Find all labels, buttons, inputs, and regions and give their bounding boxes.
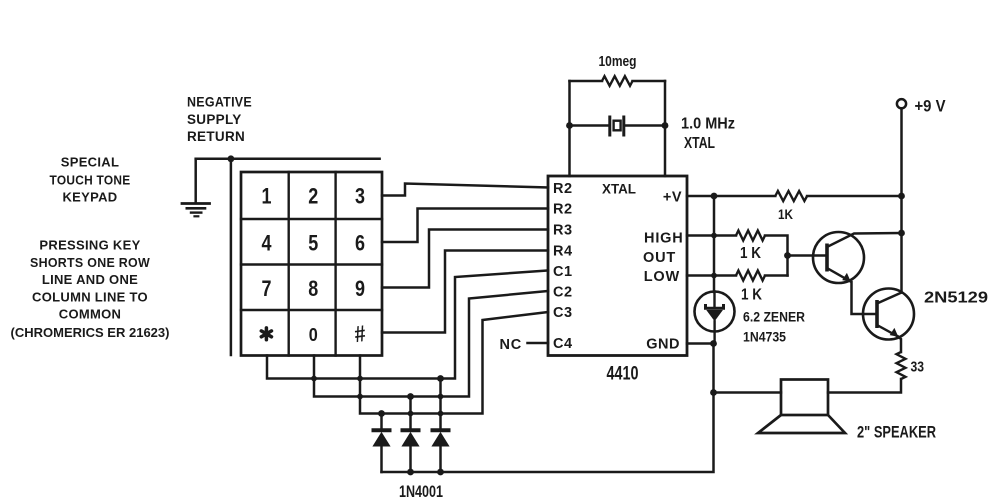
transistor Q2 base bar — [875, 300, 879, 328]
svg-text:7: 7 — [262, 276, 272, 301]
transistor Q1 circle — [813, 232, 864, 283]
wire negative supply vertical — [230, 159, 233, 355]
wire +V pin to rail — [687, 195, 714, 198]
wire rail +V to zener top — [713, 196, 716, 292]
svg-text:33: 33 — [911, 360, 925, 376]
svg-text:LINE AND ONE: LINE AND ONE — [42, 272, 138, 287]
svg-text:4410: 4410 — [607, 364, 639, 385]
svg-text:6.2 ZENER: 6.2 ZENER — [743, 310, 805, 325]
crossing blob D3 lead over H2 — [438, 394, 444, 400]
crossing blob col3 over H1 — [357, 376, 363, 382]
wire xtal top right — [633, 80, 666, 83]
crystal Y1 right plate — [622, 116, 625, 137]
svg-text:C2: C2 — [553, 285, 573, 301]
diode D1 cathode bar — [372, 428, 392, 432]
resistor R1 1K — [775, 191, 807, 201]
crossing blob LOW over rail — [711, 273, 717, 279]
wire diode D2 anode lead — [409, 397, 412, 431]
svg-text:NEGATIVE: NEGATIVE — [187, 95, 252, 110]
crossing blob HIGH over rail — [711, 233, 717, 239]
diode D2 cathode bar — [401, 428, 421, 432]
svg-text:OUT: OUT — [643, 250, 676, 266]
wire NC dash to pin C4 — [528, 342, 549, 345]
diode D3 triangle — [432, 433, 448, 446]
svg-text:1 K: 1 K — [740, 245, 762, 262]
svg-text:XTAL: XTAL — [602, 181, 636, 197]
svg-text:SUPPLY: SUPPLY — [187, 112, 242, 127]
diode D3 cathode bar — [431, 428, 451, 432]
svg-text:RETURN: RETURN — [187, 129, 245, 144]
svg-text:PRESSING KEY: PRESSING KEY — [39, 238, 140, 253]
keypad column divider 1 — [288, 172, 290, 356]
svg-text:(CHROMERICS ER 21623): (CHROMERICS ER 21623) — [11, 325, 170, 340]
svg-text:3: 3 — [355, 184, 365, 209]
zener CR4 triangle — [706, 310, 723, 321]
resistor R4 33 — [897, 352, 906, 379]
wire 33 ohm to speaker — [828, 379, 901, 393]
diode D2 triangle — [402, 433, 418, 446]
resistor R3 1K LOW — [736, 271, 765, 281]
resistor R2 1K HIGH — [736, 231, 765, 241]
svg-text:R4: R4 — [553, 244, 573, 260]
wire diode D2 to common rail — [409, 446, 412, 472]
junction D3 on bottom rail — [437, 469, 444, 476]
svg-text:2" SPEAKER: 2" SPEAKER — [857, 424, 936, 442]
svg-text:GND: GND — [646, 337, 680, 353]
svg-text:COLUMN LINE TO: COLUMN LINE TO — [32, 290, 148, 305]
wire row3 to pin R3 — [382, 230, 548, 288]
junction GND node — [710, 340, 717, 347]
wire HIGH resistor to summing node — [765, 236, 788, 276]
zener CR4 bottom lead — [713, 321, 715, 343]
svg-text:1N4001: 1N4001 — [399, 483, 443, 501]
wire diode D3 to common rail — [439, 446, 442, 472]
wire row4 to pin R4 — [382, 251, 548, 333]
wire +9V rail vertical — [900, 109, 903, 293]
zener diode CR4 circle — [695, 292, 735, 332]
keypad outline — [241, 172, 382, 356]
crystal Y1 left plate — [608, 116, 611, 137]
wire ground rail GND to speaker node — [712, 344, 715, 393]
svg-text:NC: NC — [499, 337, 522, 353]
svg-text:R2: R2 — [553, 202, 573, 218]
wire diode D1 anode lead — [380, 414, 383, 431]
junction diode D2 tap on column2 line — [407, 393, 414, 400]
wire column2 to pin C2 — [314, 291, 548, 397]
zener CR4 top lead — [713, 292, 715, 309]
wire crystal left — [570, 124, 609, 127]
wire GND pin stub — [687, 342, 714, 345]
ground bar 2 — [187, 207, 205, 210]
wire +V to 1K resistor — [714, 195, 775, 198]
svg-text:C1: C1 — [553, 264, 573, 280]
wire Q2 emitter to 33 ohm — [898, 337, 901, 353]
junction summing node — [784, 252, 791, 259]
svg-text:6: 6 — [355, 231, 365, 256]
svg-text:8: 8 — [308, 276, 318, 301]
wire Q1 emitter to Q2 base — [852, 282, 878, 314]
svg-text:2: 2 — [308, 184, 318, 209]
svg-text:+9 V: +9 V — [915, 97, 947, 116]
crossing blob D3 lead over H3 — [438, 411, 444, 417]
transistor Q2 emitter arrowhead — [890, 328, 899, 337]
svg-text:LOW: LOW — [644, 269, 680, 285]
wire HIGH pin — [687, 234, 736, 237]
keypad row divider 1 — [241, 218, 382, 220]
crossing blob col2 over H1 — [311, 376, 317, 382]
junction speaker tap on ground rail — [710, 389, 717, 396]
svg-text:0: 0 — [309, 325, 318, 345]
svg-text:9: 9 — [355, 276, 365, 301]
transistor Q2 circle — [863, 289, 914, 340]
node +V junction — [711, 193, 718, 200]
svg-text:+V: +V — [663, 190, 682, 206]
keypad column divider 2 — [334, 172, 336, 356]
svg-text:SHORTS ONE ROW: SHORTS ONE ROW — [30, 255, 150, 270]
junction crystal left node — [566, 122, 573, 129]
crossing blob D2 lead over H3 — [408, 411, 414, 417]
wire row1 to pin R2a — [382, 184, 548, 196]
junction diode D3 tap on column1 line — [437, 375, 444, 382]
wire column3 to pin C3 — [360, 312, 548, 414]
svg-text:R2: R2 — [553, 181, 573, 197]
keypad row divider 2 — [241, 263, 382, 265]
svg-text:10meg: 10meg — [599, 54, 637, 70]
ground bar 1 — [182, 202, 210, 205]
junction +9V rail and 1K — [898, 193, 905, 200]
transistor Q1 collector — [827, 233, 902, 247]
svg-text:1: 1 — [262, 184, 272, 209]
svg-text:KEYPAD: KEYPAD — [62, 190, 117, 205]
IC U1 MC14410 body — [548, 176, 687, 356]
svg-text:R3: R3 — [553, 223, 573, 239]
svg-text:1.0 MHz: 1.0 MHz — [681, 116, 735, 133]
wire xtal right leg — [664, 81, 667, 176]
terminal +9V circle — [897, 99, 906, 108]
wire 1K resistor to +9V rail — [807, 195, 901, 198]
transistor Q1 emitter arrowhead — [842, 273, 851, 282]
wire xtal left leg — [568, 81, 571, 176]
wire summing node to Q1 base — [788, 254, 828, 257]
junction +9V rail and Q1 collector — [898, 230, 905, 237]
svg-text:4: 4 — [262, 231, 273, 256]
keypad key * — [261, 328, 271, 340]
junction diode D1 tap on column3 line — [378, 410, 385, 417]
crossing blob col3 over H2 — [357, 394, 363, 400]
wire negative supply return horizontal — [196, 158, 380, 161]
wire row2 to pin R2b — [382, 209, 548, 243]
ground bar 4 — [195, 215, 199, 217]
wire LOW pin — [687, 274, 736, 277]
wire LOW resistor to summing node — [765, 274, 788, 277]
svg-text:C3: C3 — [553, 305, 573, 321]
junction crystal right node — [662, 122, 669, 129]
transistor Q1 base bar — [825, 244, 829, 272]
wire diode D3 anode lead — [439, 379, 442, 431]
svg-text:1 K: 1 K — [741, 287, 763, 304]
svg-text:1N4735: 1N4735 — [743, 330, 786, 345]
wire crystal right — [625, 124, 666, 127]
resistor 10meg — [602, 76, 633, 86]
junction D2 on bottom rail — [407, 469, 414, 476]
svg-text:5: 5 — [308, 231, 318, 256]
speaker LS1 cone — [758, 415, 845, 433]
transistor Q1 emitter — [827, 268, 851, 282]
svg-text:XTAL: XTAL — [684, 135, 715, 152]
speaker LS1 driver box — [781, 380, 828, 416]
svg-text:2N5129: 2N5129 — [924, 290, 988, 307]
transistor Q2 collector — [877, 293, 902, 304]
svg-text:TOUCH TONE: TOUCH TONE — [50, 173, 131, 188]
svg-text:C4: C4 — [553, 336, 573, 352]
ground stem — [194, 159, 197, 203]
ground bar 3 — [191, 211, 201, 213]
wire xtal top left — [570, 80, 603, 83]
svg-text:HIGH: HIGH — [644, 231, 683, 247]
svg-text:COMMON: COMMON — [59, 307, 121, 322]
crystal Y1 body — [614, 121, 621, 131]
node negative supply junction — [228, 155, 235, 162]
keypad row divider 3 — [241, 309, 382, 311]
transistor Q2 emitter — [877, 325, 898, 337]
svg-text:SPECIAL: SPECIAL — [61, 155, 119, 170]
wire speaker to ground rail — [714, 391, 782, 394]
svg-text:1K: 1K — [778, 206, 793, 222]
wire common bottom rail — [382, 393, 714, 473]
wire column1 to pin C1 — [267, 271, 548, 379]
zener CR4 cathode bar — [706, 304, 724, 308]
wire diode D1 to common rail — [380, 446, 383, 472]
diode D1 triangle — [373, 433, 389, 446]
